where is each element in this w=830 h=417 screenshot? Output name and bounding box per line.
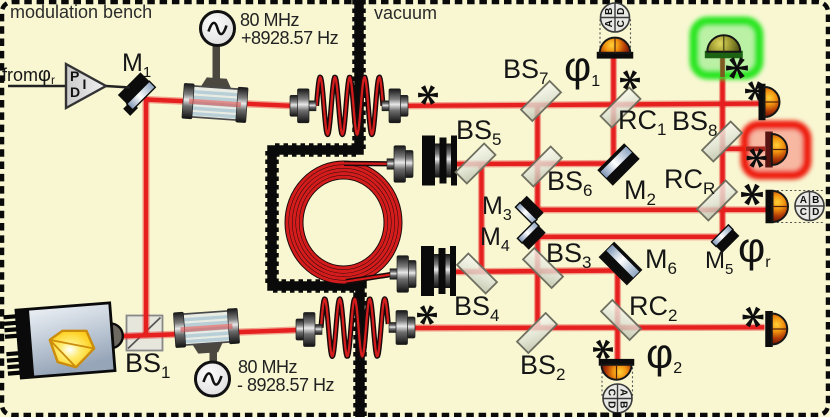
svg-text:A: A [800,195,807,206]
photodetector phi2 [0,0,1,1]
svg-text:I: I [83,76,87,92]
beam splitter BS6 [522,147,562,187]
PDI servo amplifier [66,64,106,108]
wire beam tinted inside green box [720,58,725,77]
quadrant diagram phi1 [601,3,630,32]
fiber coupler EOM2 input [390,269,398,280]
mirror M4 [517,221,545,249]
photodetector green highlighted [0,0,1,1]
svg-text:A: A [618,389,629,396]
wire BS5 down to BS4 [478,165,485,272]
wire laser to BS1 to AOM2 [113,330,298,337]
EOM modulator bottom [433,254,452,288]
wire from phi-r input [8,85,66,87]
dotted links phi-r quadrant detector [768,191,825,223]
wire beam tinted inside red box [746,147,765,152]
wire phi1 detector down through RC1 to M2 [610,56,617,165]
svg-text:80 MHz: 80 MHz [238,357,298,377]
AOM bottom with mount [210,340,218,368]
wire green detector down through BS8 and RCR to M5 [719,57,726,238]
svg-text:C: C [606,389,617,396]
wire bottom beam coupler to BS2 to RC2 to detector [409,324,765,332]
svg-text:80 MHz: 80 MHz [240,10,300,30]
bottom border dashes over phi2 quadrant [588,413,648,417]
svg-text:A: A [604,20,615,27]
beam splitter BS8 [702,122,742,162]
wire BS8 to red highlighted detector [722,145,767,152]
EOM modulator top [434,144,453,178]
wire M4 to M5 [538,233,723,240]
svg-text:+8928.57 Hz: +8928.57 Hz [241,28,339,48]
fiber spring bottom [321,299,388,357]
wire M6 down through RC2 to phi2 detector [614,268,621,360]
photodetector red highlighted [0,0,1,1]
red highlight box [745,125,807,175]
wire BS7 down through BS6 to M3 [534,104,541,212]
wire PDI to M1 [106,86,130,88]
photodetector phi1 [0,0,1,1]
svg-text:vacuum: vacuum [374,3,437,23]
fiber tail bottom to EOM2 coupler [346,275,391,282]
fiber coupler top-left [308,101,316,111]
AOM top with mount [213,42,221,80]
svg-text:D: D [616,8,627,15]
fiber coupler top-right [382,101,390,111]
beam splitter BS4 [457,254,497,294]
wire EOM1 to BS5 to BS6 to M2 [455,160,616,168]
beam splitter BS3 [523,248,563,288]
oscillator 80MHz - [196,362,230,396]
svg-text:B: B [812,195,819,206]
wire top beam coupler to BS7 to RC1 to detector [407,104,760,106]
recycling cavity mirror RC1 [601,88,641,128]
photodetector top right [0,0,1,1]
oscillator 80MHz + [201,12,235,46]
dotted links phi2 quadrant detector [602,363,633,398]
svg-text:- 8928.57 Hz: - 8928.57 Hz [237,375,335,395]
phase marker asterisks [418,85,438,105]
fiber coil [287,163,400,282]
svg-text:C: C [616,20,627,27]
mirror M2 [597,143,639,185]
photodetector phi-r [0,0,1,1]
photodetector bottom right [0,0,1,1]
fiber spring top [317,77,384,135]
laser source [3,302,125,379]
svg-text:B: B [618,401,629,408]
quadrant diagram phi-r [795,192,824,221]
svg-text:B: B [604,8,615,15]
recycling cavity mirror RC2 [601,300,641,340]
fiber coupler bottom-left [314,325,322,335]
svg-text:C: C [800,207,807,218]
svg-text:D: D [606,401,617,408]
quadrant diagram phi2 [603,384,632,413]
mirror M5 [711,225,739,253]
mirror M1 [114,72,157,115]
wire laser beam M1 to AOM1 to fiber coupler [145,100,293,106]
beam splitter BS5 [456,144,496,184]
mirror M3 [515,196,543,224]
wire M4 down through BS3 to BS2 [534,231,541,329]
vacuum chamber wall [272,0,360,417]
beam splitter cube BS1 [127,316,163,351]
green highlight box [694,21,759,75]
mirror M6 [599,242,643,286]
fiber coupler bottom-right [389,323,397,333]
fiber tail top to EOM1 coupler [344,161,388,167]
svg-text:modulation bench: modulation bench [10,2,152,22]
wire M3 through RCR to phi-r detector [535,206,767,213]
fiber coupler EOM1 input [387,159,395,170]
svg-text:D: D [70,84,80,100]
svg-text:P: P [70,68,79,84]
wire EOM2 to BS4 to BS3 to M6 [456,271,619,272]
beam splitter BS2 [517,313,557,353]
svg-text:D: D [812,207,819,218]
beam splitter BS7 [521,81,561,121]
recycling cavity mirror RCR [697,181,737,221]
dotted links phi1 quadrant detector [600,18,631,52]
svg-text:fromφr: fromφr [2,64,55,87]
wire beam M1 down to BS1 [142,97,149,335]
